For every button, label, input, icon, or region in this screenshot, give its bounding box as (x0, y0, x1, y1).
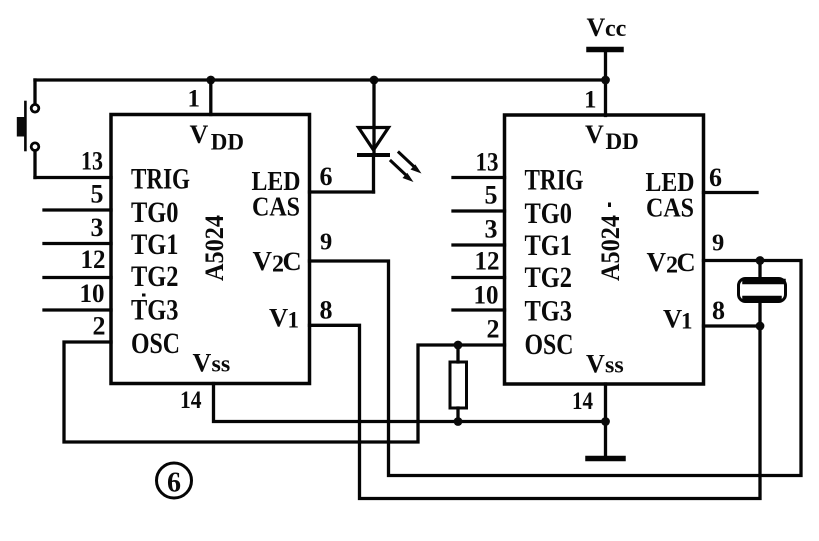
wire pin 3 stub U1 (44, 242, 111, 245)
svg-text:V: V (587, 13, 606, 42)
svg-text:cc: cc (605, 16, 627, 42)
svg-text:3: 3 (91, 213, 104, 242)
svg-text:14: 14 (572, 388, 593, 415)
svg-text:6: 6 (167, 468, 181, 499)
svg-text:C: C (283, 246, 302, 276)
node junction dot X1 bottom / V1 (756, 322, 765, 331)
svg-text:DD: DD (606, 129, 639, 154)
svg-text:6: 6 (709, 163, 722, 192)
svg-text:TG3: TG3 (131, 294, 179, 327)
svg-text:5: 5 (91, 180, 104, 209)
svg-text:3: 3 (485, 215, 498, 244)
wire V1 net: U1 pin8 right, down, across bottom, up to U2 pin8 (310, 325, 761, 498)
svg-text:TG3: TG3 (525, 295, 573, 328)
svg-text:14: 14 (180, 387, 202, 414)
node junction dot R1 bottom / Vss (454, 417, 463, 426)
node junction dot pin1 U1 on rail (206, 76, 215, 85)
IC U2 A5024 body (505, 115, 704, 384)
wire pin 6 stub U2 (704, 191, 758, 194)
node junction dot R1 top / OSC (454, 341, 463, 350)
wire pin 3 stub U2 (453, 243, 505, 246)
node junction dot X1 top / V2C (756, 256, 765, 265)
pushbutton S1 (17, 80, 39, 178)
crystal ceramic resonator X1 (739, 261, 786, 327)
svg-text:TRIG: TRIG (525, 164, 584, 197)
svg-text:V: V (647, 247, 667, 277)
svg-text:6: 6 (320, 162, 333, 191)
svg-text:OSC: OSC (131, 327, 180, 360)
svg-text:TG0: TG0 (131, 196, 179, 229)
svg-text:V: V (193, 349, 212, 378)
svg-text:9: 9 (320, 229, 332, 256)
wire pin 12 stub U2 (453, 276, 505, 279)
wire V2C net: U1 pin9 right, down, across bottom, up to U2 pin9 (310, 261, 802, 476)
wire pin 10 stub U1 (44, 308, 111, 311)
wire S1 to TRIG pin13 of U1 (35, 176, 111, 179)
svg-text:C: C (677, 247, 696, 277)
svg-text:ss: ss (605, 353, 624, 379)
svg-text:8: 8 (320, 296, 333, 325)
svg-text:V: V (253, 246, 273, 276)
svg-text:13: 13 (81, 147, 103, 176)
svg-text:A5024: A5024 (200, 215, 229, 281)
svg-text:TG0: TG0 (525, 197, 573, 230)
svg-text:10: 10 (80, 279, 105, 308)
IC U1 A5024 body (111, 115, 310, 384)
svg-text:V: V (663, 304, 682, 334)
svg-text:5: 5 (485, 181, 498, 210)
wire pin 14 of U2 down to ground (604, 384, 607, 456)
svg-text:TG1: TG1 (525, 229, 573, 262)
svg-text:1: 1 (681, 309, 693, 334)
svg-text:V: V (586, 350, 605, 379)
svg-text:V: V (190, 120, 209, 149)
svg-text:TG2: TG2 (525, 261, 573, 294)
svg-text:ss: ss (212, 352, 231, 378)
figure number circled 6 (157, 463, 192, 498)
svg-text:1: 1 (584, 87, 597, 114)
wire pin 5 stub U2 (453, 209, 505, 212)
svg-text:1: 1 (288, 308, 300, 333)
svg-text:9: 9 (712, 230, 724, 257)
ground symbol (588, 456, 623, 462)
node junction dot Vcc/rail (601, 76, 610, 85)
node junction dot U2 pin14 / Vss rail (601, 417, 610, 426)
decorative tick above A5024 U2 (608, 203, 611, 208)
wire pin 5 stub U1 (44, 208, 111, 211)
svg-text:CAS: CAS (252, 192, 300, 222)
decorative dot under TG2 U1 (142, 294, 146, 297)
svg-text:CAS: CAS (646, 193, 694, 223)
wire pin 1 of U1 (209, 80, 212, 115)
wire top supply rail (35, 78, 606, 81)
svg-text:OSC: OSC (525, 328, 574, 361)
wire pin 12 stub U1 (44, 276, 111, 279)
svg-text:TG2: TG2 (131, 260, 179, 293)
svg-text:TG1: TG1 (131, 228, 179, 261)
svg-text:A5024: A5024 (596, 215, 625, 281)
wire pin 10 stub U2 (453, 308, 505, 311)
svg-text:TRIG: TRIG (131, 163, 190, 196)
svg-text:DD: DD (211, 130, 244, 155)
LED D1 (359, 80, 422, 192)
svg-text:8: 8 (712, 296, 725, 325)
svg-text:12: 12 (81, 245, 106, 274)
svg-text:2: 2 (93, 312, 106, 341)
svg-text:12: 12 (475, 246, 500, 275)
svg-text:2: 2 (487, 315, 500, 344)
resistor R1 (450, 345, 467, 422)
svg-text:V: V (585, 120, 604, 149)
svg-text:1: 1 (188, 86, 201, 113)
node junction dot LED anode on rail (370, 76, 379, 85)
power Vcc symbol (589, 50, 621, 116)
svg-text:13: 13 (476, 148, 499, 177)
wire LED cathode to pin 6 of U1 (310, 190, 374, 193)
wire Vss net: U1 pin14 down to ground rail across to U2 pin14 (214, 384, 606, 422)
wire OSC net: U1 pin2 down and across to R1 top and U2 pin2 (64, 342, 505, 442)
wire pin 13 stub U2 (453, 176, 505, 179)
svg-text:10: 10 (474, 281, 499, 310)
svg-text:V: V (269, 303, 288, 333)
